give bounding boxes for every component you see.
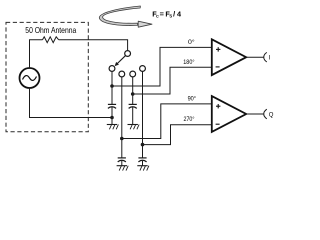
rotation arrow (commutation) (99, 6, 152, 27)
svg-text:0°: 0° (188, 38, 195, 46)
svg-text:270°: 270° (184, 115, 195, 123)
svg-text:/: / (173, 9, 175, 18)
wire: 180 deg tap to op-amp I - input (133, 67, 212, 94)
wire: resistor to switch pole (59, 40, 128, 51)
ground G2 (117, 166, 129, 171)
wire: branch 1 vertical (contact1 to cap C1) (111, 72, 113, 105)
node dot branch1 / 0 deg tap (110, 84, 114, 88)
switch contact 3 (180 deg) (130, 71, 136, 77)
wire: branch 3 vertical (contact3 to cap C3) (132, 77, 134, 104)
wire: branch 4 vertical (contact4 to cap C4) (142, 72, 144, 158)
svg-text:90°: 90° (188, 94, 197, 102)
rotary switch pole contact (125, 51, 131, 57)
switch contact 1 (0 deg) (109, 66, 115, 72)
ground G1 (107, 118, 119, 130)
label Fc = Fs / 4 (152, 9, 182, 18)
wire: 270 deg tap to op-amp Q - input (143, 125, 212, 145)
svg-text:Q: Q (269, 112, 274, 118)
output terminal Q (264, 109, 274, 119)
node dot branch3 / 180 deg tap (131, 92, 135, 96)
ground G3 (128, 125, 140, 130)
op-amp U2 (Q channel) (212, 96, 246, 132)
switch arm with arrowhead (115, 56, 125, 66)
capacitor C4 (138, 158, 146, 166)
switch contact 4 (270 deg) (140, 66, 146, 72)
capacitor C1 (108, 104, 116, 117)
svg-text:C: C (156, 14, 159, 19)
node dot branch2 / 90 deg tap (120, 137, 124, 141)
wire: 90 deg tap to op-amp Q + input (122, 104, 212, 139)
wire: op-amp Q output (246, 113, 264, 115)
capacitor C3 (129, 104, 137, 124)
svg-text:=: = (160, 9, 164, 18)
svg-text:4: 4 (177, 9, 182, 18)
switch contact 2 (90 deg) (119, 71, 125, 77)
dashed antenna enclosure box (6, 22, 88, 131)
ground G4 (137, 166, 149, 171)
node dot: antenna return joins C1/ground (110, 116, 114, 120)
svg-text:S: S (169, 14, 172, 19)
wire: branch 2 vertical (contact2 to cap C2) (121, 77, 123, 158)
wire: op-amp I output (246, 56, 264, 58)
op-amp U1 (I channel) (212, 39, 246, 75)
output terminal I (264, 52, 271, 62)
svg-text:180°: 180° (183, 58, 195, 66)
resistor (50 ohm antenna) (43, 37, 59, 43)
wire: AC source top to resistor (30, 40, 43, 68)
AC source V1 (20, 68, 40, 88)
node dot branch4 / 270 deg tap (141, 143, 145, 147)
capacitor C2 (118, 158, 126, 166)
wire: antenna return rail to ground node (30, 88, 113, 118)
svg-text:50 Ohm Antenna: 50 Ohm Antenna (25, 26, 76, 35)
wire: 0 deg tap to op-amp I + input (112, 47, 212, 86)
svg-text:I: I (269, 56, 271, 62)
